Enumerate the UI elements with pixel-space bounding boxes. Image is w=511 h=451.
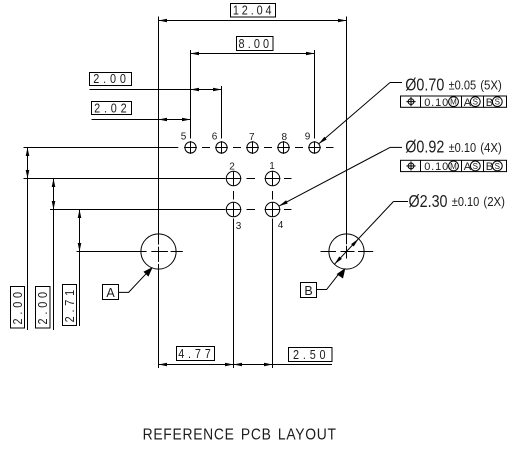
svg-text:2.02: 2.02 [94, 102, 129, 116]
arrowhead leader Ø0.92 [279, 200, 288, 206]
leader datum A [119, 273, 147, 292]
centerline dashes row 3-4 [247, 209, 292, 211]
dimension text box 12.04 [231, 4, 276, 18]
arrowheads dimension 2.00 top [191, 88, 200, 92]
hole B (Ø2.30, datum B) [321, 234, 374, 269]
dimension text box 4.77 [177, 347, 215, 361]
datum A box [103, 285, 119, 300]
arrowheads dimension 12.04 [159, 19, 168, 23]
extension line above hole 9 [314, 50, 316, 139]
svg-text:2.00: 2.00 [11, 290, 25, 325]
callout Ø0.92 ±0.10 (4X) [405, 137, 502, 157]
svg-text:9: 9 [305, 132, 311, 143]
leader for Ø0.70 callout [319, 83, 402, 144]
hole 2 (Ø0.92) [226, 171, 242, 186]
datum A filled triangle [143, 267, 152, 277]
svg-text:S: S [473, 98, 478, 107]
extension line below hole 3 [233, 219, 235, 369]
svg-text:±0.10: ±0.10 [449, 140, 477, 155]
hole 5 (Ø0.70) [184, 141, 197, 154]
leader datum B [317, 274, 339, 289]
svg-text:0.10: 0.10 [424, 97, 448, 109]
dimension line 2.00 top [90, 89, 222, 91]
hole 8 (Ø0.70) [277, 141, 290, 154]
arrowhead leader Ø0.70 [319, 137, 327, 144]
svg-text:0.10: 0.10 [424, 161, 448, 173]
extension line left body edge (datum A side) [158, 17, 160, 369]
svg-text:(4X): (4X) [480, 140, 502, 155]
leader and diameter line for Ø2.30 callout through hole B [334, 202, 408, 265]
hole 1 (Ø0.92) [265, 171, 281, 186]
svg-text:1: 1 [269, 161, 275, 172]
arrowheads dimension 2.71 left [78, 210, 82, 219]
extension line row 5-9 left [24, 147, 179, 149]
extension line above hole 5 [190, 50, 192, 139]
centerline of hole A row [77, 251, 183, 253]
centerline dashes row 5-9 [202, 147, 334, 149]
extension line row 3-4 left [50, 209, 225, 211]
centerline dashes row 2-1 [247, 178, 292, 180]
svg-text:(5X): (5X) [480, 78, 502, 93]
dimension text box 2.02 [92, 102, 132, 115]
dimension line 2.02 [92, 119, 191, 121]
hole 9 (Ø0.70) [308, 141, 321, 154]
svg-text:6: 6 [212, 132, 218, 143]
dimension line 2.00 left first [27, 148, 29, 331]
svg-text:2.00: 2.00 [93, 73, 128, 87]
svg-text:Ø0.92: Ø0.92 [405, 137, 444, 157]
dimension text box 8.00 [237, 37, 274, 51]
svg-text:2.50: 2.50 [293, 348, 328, 362]
callout Ø2.30 ±0.10 (2X) [409, 191, 506, 211]
svg-text:REFERENCE PCB LAYOUT: REFERENCE PCB LAYOUT [143, 426, 338, 444]
centerline dash column holes 1-4 [272, 191, 274, 200]
leader for Ø0.92 callout [279, 147, 402, 206]
svg-text:8.00: 8.00 [239, 37, 272, 51]
dimension text box 2.00 vertical second [36, 287, 51, 329]
arrowheads dimension 8.00 [191, 52, 200, 56]
svg-text:A: A [106, 286, 115, 300]
hole A (Ø2.30, datum A) [141, 234, 176, 269]
svg-text:2.00: 2.00 [36, 290, 50, 325]
callout Ø0.70 ±0.05 (5X) [405, 74, 502, 94]
svg-text:4.77: 4.77 [178, 347, 213, 361]
dimension line 2.00 left second [53, 179, 55, 331]
centerline dash column holes 2-3 [233, 191, 235, 200]
dimension line 12.04 [159, 20, 347, 22]
feature control frame for Ø0.92 (position 0.10 M A S B S) [401, 160, 507, 173]
svg-text:S: S [495, 98, 500, 107]
extension line row 2-1 left [24, 178, 226, 180]
feature control frame for Ø0.70 (position 0.10 M A S B S) [401, 96, 507, 109]
svg-text:4: 4 [278, 220, 284, 231]
svg-text:5: 5 [181, 132, 187, 143]
dimension line 8.00 [191, 53, 315, 55]
svg-text:S: S [495, 162, 500, 171]
svg-text:±0.10: ±0.10 [452, 194, 480, 209]
arrowheads diameter line hole B [351, 239, 359, 247]
arrowheads dimension 2.00 left first [26, 148, 30, 157]
svg-text:S: S [473, 162, 478, 171]
dimension text box 2.00 vertical first [11, 287, 25, 329]
arrowheads dimension 2.00 left second [52, 179, 56, 188]
svg-text:A: A [464, 97, 472, 109]
svg-text:7: 7 [249, 132, 255, 143]
extension line below hole 4 [272, 219, 274, 369]
arrowheads dimension 4.77 [159, 363, 168, 367]
svg-text:B: B [304, 284, 312, 298]
hole 7 (Ø0.70) [246, 141, 259, 154]
extension line above hole 6 [221, 86, 223, 139]
datum B box [301, 283, 317, 298]
hole 3 (Ø0.92) [226, 202, 242, 217]
extension line right body edge (datum B side) [346, 17, 348, 259]
svg-text:Ø2.30: Ø2.30 [409, 191, 448, 211]
svg-text:12.04: 12.04 [233, 4, 274, 18]
hole 4 (Ø0.92) [265, 202, 281, 217]
svg-text:(2X): (2X) [483, 194, 505, 209]
datum B filled triangle [337, 268, 346, 279]
dimension line 2.71 left [79, 210, 81, 327]
dimension text box 2.50 [289, 348, 333, 362]
svg-text:8: 8 [282, 132, 288, 143]
svg-text:B: B [486, 161, 493, 173]
svg-text:M: M [450, 98, 457, 107]
svg-text:B: B [486, 97, 493, 109]
svg-text:Ø0.70: Ø0.70 [405, 74, 444, 94]
svg-text:M: M [450, 162, 457, 171]
svg-text:3: 3 [236, 221, 242, 232]
dimension text box 2.71 vertical [63, 285, 77, 326]
hole 6 (Ø0.70) [215, 141, 228, 154]
svg-text:2.71: 2.71 [63, 288, 77, 323]
dimension text box 2.00 top [90, 73, 132, 86]
arrowheads dimension 2.50 [234, 363, 243, 367]
dimension line 4.77 and 2.50 bottom [159, 364, 333, 366]
svg-text:A: A [464, 161, 472, 173]
svg-text:2: 2 [229, 161, 235, 172]
svg-text:±0.05: ±0.05 [449, 78, 477, 93]
arrowheads dimension 2.02 [159, 118, 168, 122]
